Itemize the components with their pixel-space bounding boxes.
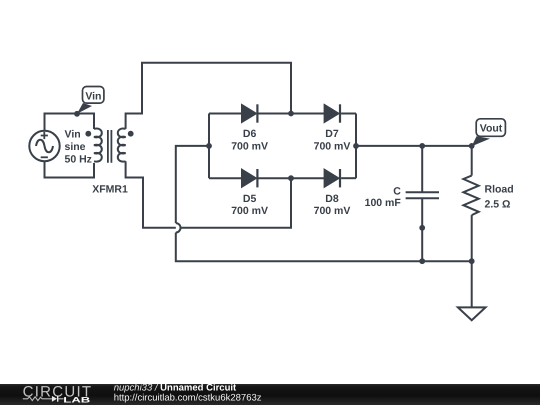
flag Vout pointer [472,136,490,146]
capacitor C bottom wire [421,198,423,261]
transformer XFMR1 secondary coil [118,129,126,162]
transformer core lines [108,130,112,163]
diode D5 [242,170,256,187]
svg-text:XFMR1: XFMR1 [92,184,128,196]
flag Vout box [476,119,505,137]
svg-text:100 mF: 100 mF [365,197,402,209]
junction dot resistor ground rail [469,258,475,264]
footer logo diode symbol [52,396,57,402]
bridge right vertical wire [355,114,357,179]
resistor Rload bottom wire [471,215,473,261]
resistor Rload top wire [471,146,473,176]
svg-text:D5: D5 [243,193,257,205]
svg-text:700 mV: 700 mV [314,140,351,152]
svg-text:D8: D8 [325,193,339,205]
ground wire [471,261,473,307]
junction dot Vin tap [74,111,80,117]
diode D6 [242,105,256,122]
svg-text:C: C [393,185,401,197]
wire hop over secondary-bottom wire [176,223,181,232]
svg-text:D6: D6 [243,128,257,140]
svg-text:http://circuitlab.com/cstku6k2: http://circuitlab.com/cstku6k28763z [114,392,262,403]
wire secondary top to bridge top-mid [126,63,291,129]
wire secondary bottom [126,161,291,228]
ground symbol triangle [458,307,486,320]
svg-text:Vin: Vin [85,90,101,102]
svg-text:2.5 Ω: 2.5 Ω [485,198,511,210]
wire between D5 and D8 [291,177,325,179]
wire source top [45,114,95,131]
voltage source plus sign [41,132,48,139]
svg-text:50 Hz: 50 Hz [65,153,92,165]
svg-text:700 mV: 700 mV [231,205,268,217]
wire output node to Vout [356,145,472,147]
voltage source V1 circle [29,131,59,161]
voltage source sine wave [36,140,53,153]
capacitor C branch top wire [421,146,423,192]
diode D8 [325,170,339,187]
junction dot bridge bottom-mid [288,175,294,181]
svg-text:D7: D7 [325,128,339,140]
capacitor C plates [406,192,439,198]
resistor Rload zigzag [463,176,478,216]
junction dot bridge mid-right [353,143,359,149]
transformer secondary phase dot [128,131,134,137]
wire mid-left node to ground rail with hop [176,146,209,223]
svg-text:Vin: Vin [65,128,81,140]
bridge bottom row wire [209,177,242,179]
svg-text:sine: sine [65,141,86,153]
svg-text:700 mV: 700 mV [231,140,268,152]
wire source bottom [45,162,95,178]
flag Vin pointer [77,103,92,114]
svg-text:Rload: Rload [485,184,514,196]
junction dot capacitor top [419,143,425,149]
junction dot Vout tap [469,143,475,149]
diode D7 [325,105,339,122]
junction dot capacitor ground rail [419,258,425,264]
junction dot bridge mid-left [206,143,212,149]
transformer primary phase dot [85,131,91,137]
svg-text:Vout: Vout [480,123,503,135]
wire between D6 and D7 [291,113,325,115]
svg-text:LAB: LAB [63,395,91,404]
footer bar [0,384,540,405]
bridge left vertical wire [208,114,210,179]
footer logo squiggle resistor [23,397,52,401]
transformer XFMR1 primary coil [94,129,102,162]
junction dot capacitor bottom joint [419,225,425,231]
svg-text:700 mV: 700 mV [314,205,351,217]
flag Vin box [83,87,104,104]
voltage source minus sign [41,156,48,158]
bridge top row wire [209,113,242,115]
junction dot bridge top-mid [288,111,294,117]
